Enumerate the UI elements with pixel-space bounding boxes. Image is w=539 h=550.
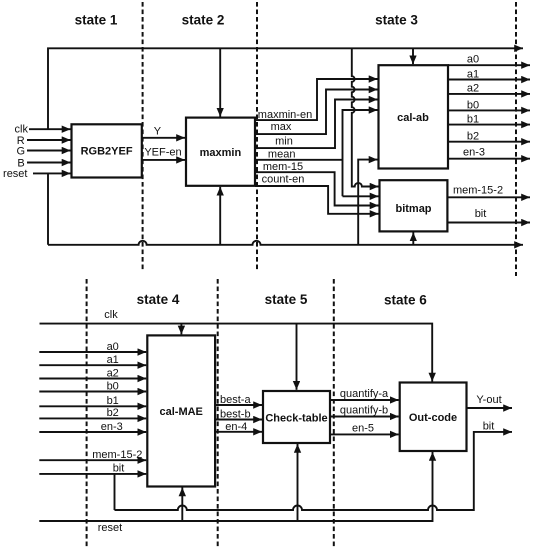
wire bit top <box>447 222 530 224</box>
svg-text:maxmin-en: maxmin-en <box>258 109 312 121</box>
svg-text:reset: reset <box>98 522 122 534</box>
wire clk into Check-table top <box>296 324 298 390</box>
wire reset into cal-MAE bottom <box>181 488 183 522</box>
wire maxmin-en <box>255 79 378 120</box>
svg-text:b1: b1 <box>107 395 119 407</box>
svg-text:b0: b0 <box>467 100 479 112</box>
svg-text:Y: Y <box>154 126 162 138</box>
wire reset into cal-ab <box>358 160 377 245</box>
wire bit bypass with hops <box>115 432 513 510</box>
wire en-3 in <box>39 431 146 433</box>
wire b0 in <box>39 391 146 393</box>
svg-text:mem-15: mem-15 <box>263 161 303 173</box>
wire clk into cal-ab top <box>412 48 414 64</box>
wire b1 <box>448 124 530 126</box>
wire quantify-b <box>330 416 399 418</box>
svg-text:a0: a0 <box>467 54 479 66</box>
wire b0 <box>448 109 530 111</box>
wire B <box>27 162 71 164</box>
svg-text:b2: b2 <box>107 407 119 419</box>
block RGB2YEF <box>72 124 142 177</box>
wire reset into bitmap bottom <box>412 232 414 244</box>
wire quantify-a <box>330 399 399 401</box>
wire a0 <box>448 64 530 66</box>
svg-text:best-b: best-b <box>220 409 251 421</box>
svg-text:a1: a1 <box>467 68 479 80</box>
wire reset top <box>33 172 71 174</box>
svg-text:b0: b0 <box>107 380 119 392</box>
svg-text:mean: mean <box>268 148 296 160</box>
svg-text:state 1: state 1 <box>75 12 118 27</box>
svg-text:state 3: state 3 <box>375 12 418 27</box>
svg-text:cal-MAE: cal-MAE <box>159 406 202 418</box>
svg-text:Y-out: Y-out <box>476 394 501 406</box>
wire clk into maxmin top <box>219 48 221 116</box>
svg-text:quantify-a: quantify-a <box>340 388 389 400</box>
svg-text:a2: a2 <box>467 83 479 95</box>
svg-text:count-en: count-en <box>262 174 305 186</box>
state boundary dashed line 4 left <box>86 279 88 548</box>
wire min <box>255 100 378 149</box>
wire Y <box>142 137 185 139</box>
svg-text:reset: reset <box>3 168 27 180</box>
block bitmap <box>380 180 448 231</box>
wire mean branch to bitmap <box>343 195 379 197</box>
wire b1 in <box>39 405 146 407</box>
svg-text:mem-15-2: mem-15-2 <box>453 184 503 196</box>
svg-text:bitmap: bitmap <box>395 203 431 215</box>
block Out-code <box>400 383 467 452</box>
state boundary dashed line 1/2 <box>142 2 144 272</box>
wire a2 in <box>39 378 146 380</box>
svg-text:b2: b2 <box>467 130 479 142</box>
state boundary dashed line 5/6 <box>333 279 335 548</box>
block maxmin <box>186 118 255 186</box>
svg-text:cal-ab: cal-ab <box>397 112 429 124</box>
svg-text:G: G <box>16 146 25 158</box>
svg-text:Check-table: Check-table <box>265 412 327 424</box>
wire a1 in <box>39 364 146 366</box>
svg-text:state 6: state 6 <box>384 292 427 307</box>
svg-text:quantify-b: quantify-b <box>340 405 388 417</box>
wire count-en <box>255 186 379 214</box>
svg-text:en-5: en-5 <box>352 422 374 434</box>
svg-text:state 2: state 2 <box>182 12 225 27</box>
state boundary dashed line 4/5 <box>217 279 219 548</box>
wire en-4 <box>215 431 262 433</box>
wire YEF-en <box>142 159 185 161</box>
wire clk bottom distribution <box>40 324 433 382</box>
svg-text:maxmin: maxmin <box>200 147 242 159</box>
wire en-5 <box>330 433 399 435</box>
wire mean <box>255 110 378 196</box>
svg-text:clk: clk <box>104 309 118 321</box>
svg-text:YEF-en: YEF-en <box>144 147 181 159</box>
wire mem-15-2 top <box>447 196 530 198</box>
wire b2 in <box>39 417 146 419</box>
svg-text:a0: a0 <box>107 341 119 353</box>
block cal-ab <box>379 65 449 168</box>
svg-text:RGB2YEF: RGB2YEF <box>81 145 133 157</box>
wire best-a <box>215 404 262 406</box>
wire mem-15 <box>255 172 379 205</box>
svg-text:state 4: state 4 <box>137 292 180 307</box>
wire reset bottom distribution with hops over dashed lines <box>48 173 523 244</box>
wire max <box>255 90 378 135</box>
svg-text:state 5: state 5 <box>265 292 308 307</box>
block Check-table <box>263 391 330 443</box>
svg-text:mem-15-2: mem-15-2 <box>92 449 142 461</box>
wire G <box>27 150 71 152</box>
wire bit in <box>39 473 146 475</box>
wire clk into bitmap with hops <box>352 48 379 186</box>
svg-text:Out-code: Out-code <box>409 412 457 424</box>
state boundary dashed line 2/3 <box>256 2 258 272</box>
svg-text:en-3: en-3 <box>463 147 485 159</box>
wire a0 in <box>39 351 146 353</box>
svg-text:b1: b1 <box>467 114 479 126</box>
wire a1 <box>448 79 530 81</box>
wire reset bottom line <box>39 452 432 521</box>
svg-text:bit: bit <box>483 421 495 433</box>
svg-text:max: max <box>271 121 292 133</box>
wire R <box>27 139 71 141</box>
state boundary dashed line right of state 3 <box>515 2 517 276</box>
svg-text:bit: bit <box>475 208 487 220</box>
wire reset into Check-table bottom <box>297 444 299 521</box>
block cal-MAE <box>147 335 215 486</box>
wire mem-15-2 in <box>39 459 146 461</box>
wire Y-out <box>467 407 513 409</box>
svg-text:clk: clk <box>15 124 29 136</box>
svg-text:en-4: en-4 <box>225 421 247 433</box>
svg-text:en-3: en-3 <box>101 421 123 433</box>
svg-text:a2: a2 <box>107 367 119 379</box>
wire a2 <box>448 93 530 95</box>
wire reset into maxmin bottom <box>219 187 221 245</box>
wire b2 <box>448 141 530 143</box>
wire clk into cal-MAE top <box>180 324 182 335</box>
svg-text:bit: bit <box>113 463 125 475</box>
svg-text:a1: a1 <box>107 354 119 366</box>
svg-text:best-a: best-a <box>220 394 251 406</box>
wire en-3 <box>448 158 530 160</box>
wire best-b <box>215 419 262 421</box>
wire clk top distribution <box>29 128 71 130</box>
svg-text:min: min <box>275 136 293 148</box>
